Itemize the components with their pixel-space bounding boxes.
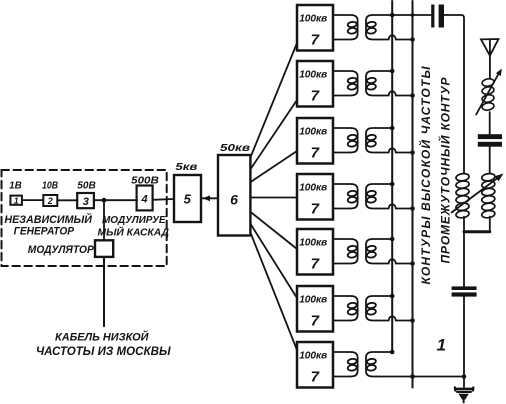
- wire C3 to ground junction: [463, 297, 465, 377]
- svg-text:50кв: 50кв: [220, 142, 251, 154]
- block 3: [77, 193, 94, 208]
- block 2: [43, 195, 57, 206]
- amplifier block 7 (unit 5, 100 kW): [297, 229, 333, 275]
- wire secondary bottom to HF bus 2 (unit 4): [377, 204, 413, 208]
- svg-text:КАБЕЛЬ НИЗКОЙ: КАБЕЛЬ НИЗКОЙ: [55, 331, 150, 344]
- svg-text:2: 2: [47, 196, 53, 206]
- svg-text:100кв: 100кв: [299, 351, 327, 362]
- svg-text:500В: 500В: [131, 176, 159, 187]
- svg-text:4: 4: [141, 193, 148, 205]
- svg-text:КОНТУРЫ ВЫСОКОЙ ЧАСТОТЫ: КОНТУРЫ ВЫСОКОЙ ЧАСТОТЫ: [417, 66, 433, 285]
- wire joiner to C3: [463, 232, 465, 287]
- coupling capacitor C1 (top, vertical plates): [431, 5, 444, 28]
- wire secondary bottom to HF bus 2 (unit 1): [377, 35, 413, 39]
- svg-text:100кв: 100кв: [299, 183, 327, 194]
- wire secondary bottom to HF bus 2 (unit 2): [377, 91, 413, 95]
- junction node on bus 1 (unit 3): [390, 126, 395, 131]
- svg-text:3: 3: [83, 196, 89, 208]
- transformer T4 primary winding: [333, 184, 358, 209]
- HF bus 2 (vertical): [412, 1, 414, 388]
- junction node on bus 1 (unit 6): [390, 294, 395, 299]
- svg-text:10В: 10В: [42, 181, 58, 192]
- fan wire to unit 3: [251, 151, 297, 182]
- wire block2-block3: [57, 199, 77, 201]
- transformer T7 secondary winding: [366, 352, 392, 377]
- junction node on bus 1 (unit 1): [390, 13, 395, 18]
- svg-text:7: 7: [311, 201, 320, 218]
- transformer T3 secondary winding: [366, 128, 392, 153]
- transformer T2 secondary winding: [366, 71, 392, 96]
- svg-text:1: 1: [14, 195, 19, 205]
- transformer T7 primary winding: [333, 352, 358, 377]
- antenna: [481, 39, 499, 56]
- capacitor C3 (intermediate circuit, horizontal plates): [452, 286, 477, 296]
- svg-text:7: 7: [311, 369, 320, 386]
- svg-text:100кв: 100кв: [299, 70, 327, 81]
- transformer T1 primary winding: [333, 15, 358, 40]
- junction node after block 3: [102, 198, 107, 203]
- fan wire to unit 2: [251, 100, 297, 169]
- fan wire to unit 1: [251, 43, 297, 157]
- transformer T5 secondary winding: [366, 239, 392, 264]
- ground symbol: [455, 388, 473, 403]
- svg-text:7: 7: [311, 32, 320, 49]
- wire secondary bottom to HF bus 2 (unit 7): [377, 376, 464, 378]
- svg-text:5кв: 5кв: [175, 162, 197, 173]
- wire secondary bottom to HF bus 2 (unit 6): [377, 316, 413, 320]
- junction node bus2 / bottom wire: [410, 374, 415, 379]
- modulator coupling box: [95, 240, 113, 257]
- junction node on bus 1 (unit 4): [390, 182, 395, 187]
- amplifier block 7 (unit 4, 100 kW): [297, 174, 333, 220]
- transformer T6 primary winding: [333, 296, 358, 321]
- wire secondary bottom to HF bus 2 (unit 3): [377, 148, 413, 152]
- wire junction to modulator box: [103, 200, 105, 240]
- wire L1 to C2: [489, 112, 491, 134]
- junction node on bus 1 (unit 7): [390, 350, 395, 355]
- svg-text:7: 7: [311, 88, 320, 105]
- wire antenna to variometer: [489, 56, 491, 79]
- amplifier block 7 (unit 6, 100 kW): [297, 286, 333, 332]
- fan wire to unit 6: [251, 224, 297, 298]
- transformer T5 primary winding: [333, 239, 358, 264]
- svg-text:7: 7: [311, 145, 320, 162]
- fan wire to unit 7: [251, 233, 297, 350]
- svg-text:100кв: 100кв: [299, 238, 327, 249]
- coupling coil L3 (antenna side): [481, 173, 495, 219]
- junction node on bus 2 (unit 2): [410, 93, 415, 98]
- arrow of variable coupling (variometer): [452, 174, 504, 213]
- junction node on bus 2 (unit 7): [410, 374, 415, 379]
- svg-text:5: 5: [184, 192, 192, 207]
- svg-text:1: 1: [437, 336, 446, 355]
- junction node on bus 1 (unit 2): [390, 69, 395, 74]
- svg-text:50В: 50В: [77, 181, 96, 192]
- junction node bus2 / top wire: [411, 13, 415, 17]
- svg-text:ПРОМЕЖУТОЧНЫЙ КОНТУР: ПРОМЕЖУТОЧНЫЙ КОНТУР: [436, 77, 452, 264]
- svg-text:7: 7: [311, 256, 320, 273]
- wire block1-block2: [22, 199, 43, 201]
- svg-text:МЫЙ КАСКАД: МЫЙ КАСКАД: [98, 225, 170, 238]
- fan wire to unit 5: [251, 212, 297, 249]
- wire C2 to coupling coil: [489, 147, 491, 174]
- svg-text:НЕЗАВИСИМЫЙ: НЕЗАВИСИМЫЙ: [4, 213, 93, 226]
- junction node on bus 2 (unit 5): [410, 261, 415, 266]
- arrowhead on wire: [203, 195, 210, 201]
- junction node bottom wire / intermediate circuit: [462, 374, 467, 379]
- amplifier block 7 (unit 1, 100 kW): [297, 5, 333, 51]
- svg-text:7: 7: [311, 313, 320, 330]
- svg-text:МОДУЛЯТОР: МОДУЛЯТОР: [28, 244, 95, 256]
- coupling coil L2 (intermediate circuit side): [455, 173, 469, 219]
- transformer T6 secondary winding: [366, 296, 392, 321]
- transformer T2 primary winding: [333, 71, 358, 96]
- junction node on bus 2 (unit 3): [410, 150, 415, 155]
- svg-text:6: 6: [230, 192, 238, 208]
- wire block4-block5: [153, 198, 174, 201]
- wire secondary bottom to HF bus 2 (unit 5): [377, 259, 413, 263]
- transformer T4 secondary winding: [366, 184, 392, 209]
- junction node on bus 2 (unit 1): [410, 37, 415, 42]
- wire to ground: [463, 377, 465, 388]
- wire capacitor to intermediate circuit: [444, 15, 464, 173]
- transformer T1 secondary winding: [366, 15, 431, 40]
- junction node on bus 1 (unit 5): [390, 237, 395, 242]
- junction node on bus 2 (unit 6): [410, 318, 415, 323]
- arrow of variable inductor L1: [476, 69, 502, 115]
- svg-text:МОДУЛИРУЕ: МОДУЛИРУЕ: [102, 214, 166, 226]
- wire block3-block4: [94, 199, 138, 201]
- amplifier block 7 (unit 3, 100 kW): [297, 118, 333, 164]
- HF bus 1 (vertical): [391, 1, 393, 353]
- amplifier block 7 (unit 2, 100 kW): [297, 61, 333, 107]
- svg-text:100кв: 100кв: [299, 14, 327, 25]
- block 4 (modulated stage): [137, 186, 153, 211]
- capacitor C2 (antenna circuit, horizontal plates): [478, 134, 502, 147]
- wire block5-block6: [201, 197, 218, 199]
- svg-text:ГЕНЕРАТОР: ГЕНЕРАТОР: [14, 226, 75, 238]
- wire LF cable drop: [103, 257, 105, 326]
- svg-text:ЧАСТОТЫ ИЗ МОСКВЫ: ЧАСТОТЫ ИЗ МОСКВЫ: [36, 346, 171, 358]
- svg-text:1В: 1В: [9, 181, 22, 192]
- variable inductor L1 (antenna variometer): [481, 78, 494, 111]
- block 6 (50kW amplifier): [218, 155, 250, 236]
- block 1 (master oscillator stage): [10, 196, 22, 205]
- junction node on bus 2 (unit 4): [410, 206, 415, 211]
- wire coil tails and joiner: [464, 217, 490, 232]
- block 5 (5kW amplifier): [174, 175, 201, 222]
- dashed enclosure (exciter-modulator unit): [2, 170, 167, 266]
- svg-text:100кв: 100кв: [299, 127, 327, 138]
- svg-text:100кв: 100кв: [299, 295, 327, 306]
- amplifier block 7 (unit 7, 100 kW): [297, 342, 333, 388]
- fan wire to unit 4: [251, 197, 297, 199]
- transformer T3 primary winding: [333, 128, 358, 153]
